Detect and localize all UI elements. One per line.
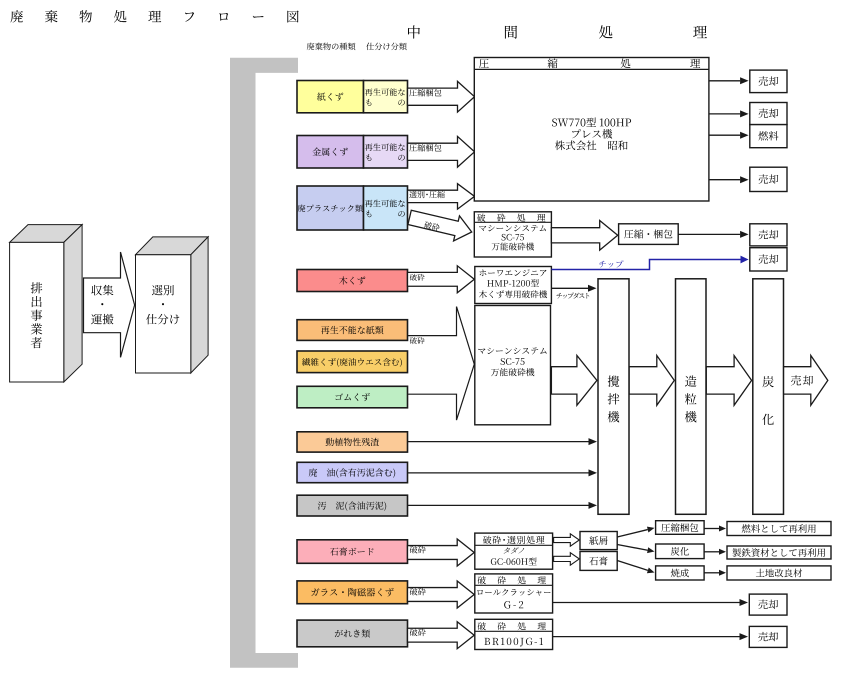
line to 売却 2 xyxy=(709,113,740,115)
box 売却 5 チップ xyxy=(750,248,787,271)
chip line チップ xyxy=(551,260,741,270)
box 繊維くず xyxy=(297,351,408,373)
box 攪拌機 xyxy=(598,279,629,515)
box マシーンシステム SC-75 万能破砕機 xyxy=(475,306,551,425)
box 燃料 xyxy=(750,125,787,148)
arrow 破砕 diagonal from 廃プラスチック類 xyxy=(407,205,475,245)
box 売却 6 xyxy=(749,594,787,615)
3d box 選別仕分け xyxy=(136,237,209,255)
box がれき類 xyxy=(297,620,408,647)
box 売却 2 xyxy=(750,103,787,125)
column label 廃棄物の種類 xyxy=(307,43,356,51)
arrow 破砕 from 石膏ボード xyxy=(408,539,475,566)
arrow 破砕 from ガラス陶磁器くず xyxy=(408,581,475,608)
box 石膏 xyxy=(580,552,617,571)
box 紙屑 xyxy=(580,532,617,550)
box 破砕・選別処理 タダノ xyxy=(475,533,553,569)
box 燃料として再利用 xyxy=(727,522,831,536)
box ゴムくず xyxy=(297,386,408,408)
box 土地改良材 xyxy=(727,566,831,580)
box 金属くず xyxy=(297,136,364,169)
arrow to 石膏 xyxy=(554,553,580,566)
box 紙くず xyxy=(297,81,364,113)
arrow SC-75 to 攪拌機 xyxy=(551,356,597,406)
line ロールクラッシャー to 売却 xyxy=(553,602,740,604)
box ホーワエンジニア HMP-1200 xyxy=(475,267,552,304)
line 炭化 to 製鉄資材 xyxy=(704,551,719,553)
line to 売却 3 xyxy=(709,179,740,181)
box 廃油 xyxy=(297,462,408,482)
line to 燃料 xyxy=(709,134,740,136)
box 汚泥 xyxy=(297,495,408,516)
box 製鉄資材として再利用 xyxy=(727,546,831,559)
box 圧縮・梱包 xyxy=(619,224,679,245)
arrow 圧縮梱包 from 紙くず xyxy=(408,81,475,112)
arrow to 紙屑 xyxy=(554,534,580,547)
line 動植物性残渣 to 攪拌機 xyxy=(408,441,589,443)
gray bracket band xyxy=(230,58,298,668)
box 売却 1 xyxy=(750,70,787,93)
box 圧縮処理 SW770 xyxy=(474,58,709,202)
box 売却 4 xyxy=(750,224,787,246)
line 廃油 to 攪拌機 xyxy=(408,472,589,474)
box 破砕処理 BR100JG-1 xyxy=(475,619,553,649)
box 動植物性残渣 xyxy=(297,432,408,452)
line 紙屑 to 圧縮梱包 xyxy=(617,530,647,537)
arrow 破砕 from がれき類 xyxy=(408,622,475,649)
line 圧縮梱包 to 燃料として再利用 xyxy=(704,528,719,530)
box 廃プラスチック類 xyxy=(297,186,364,230)
box 再生不能な紙類 xyxy=(297,320,408,341)
line 紙屑 to 炭化 xyxy=(617,545,647,551)
arrow SC-75 to 圧縮梱包 xyxy=(551,220,617,250)
arrow 攪拌機 to 造粒機 xyxy=(629,356,674,406)
line 石膏 to 焼成 xyxy=(617,561,648,571)
box 売却 7 xyxy=(749,626,787,647)
line 汚泥 to 攪拌機 xyxy=(408,504,589,506)
arrow 収集運搬 xyxy=(84,252,135,357)
arrow 選別・圧縮 from 廃プラスチック類 xyxy=(408,184,475,209)
line チップダスト xyxy=(551,287,588,289)
arrow 破砕 from 木くず xyxy=(408,266,475,293)
box 木くず xyxy=(297,270,408,292)
arrow 炭化 to 売却 xyxy=(784,356,828,406)
box 売却 3 xyxy=(750,167,787,191)
arrow 造粒機 to 炭化 xyxy=(706,356,751,406)
arrow 破砕 combined from 紙類・ゴムくず xyxy=(408,307,475,421)
box 炭化2 xyxy=(656,544,705,559)
box 造粒機 xyxy=(676,279,707,515)
box 炭化 xyxy=(753,279,784,515)
3d box 排出事業者 xyxy=(10,225,83,243)
box 石膏ボード xyxy=(297,540,408,564)
box ガラス陶磁器くず xyxy=(297,581,408,604)
box 焼成 xyxy=(656,566,705,580)
line BR100JG-1 to 売却 xyxy=(553,636,740,638)
arrow 圧縮梱包 from 金属くず xyxy=(408,136,475,167)
line 圧縮梱包 to 売却 xyxy=(678,233,740,235)
line 焼成 to 土地改良材 xyxy=(704,572,719,574)
box 破砕処理 ロールクラッシャー xyxy=(475,574,553,613)
line to 売却 1 xyxy=(709,80,740,82)
box 破砕処理 SC-75 xyxy=(474,212,551,257)
column label 仕分け分類 xyxy=(366,43,406,51)
box 圧縮梱包 xyxy=(656,521,705,535)
title 廃棄物処理フロー図 xyxy=(10,10,298,22)
header 中間処理 xyxy=(408,25,420,38)
